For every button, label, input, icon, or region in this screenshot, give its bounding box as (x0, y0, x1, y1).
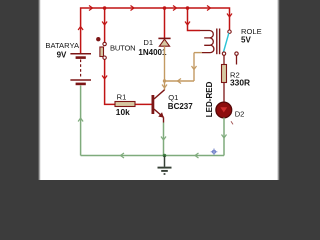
LED emission mark (231, 121, 233, 124)
current arrow rail right 1 (89, 6, 93, 11)
svg-text:1N4001: 1N4001 (138, 48, 167, 57)
wire tan horizontal to relay (165, 80, 195, 82)
wire button branch drop (104, 8, 106, 42)
node junction dot coil (186, 6, 190, 10)
current arrow rail right 3 (173, 6, 177, 11)
origin marker (blue) (211, 149, 218, 156)
resistor R2 body (222, 65, 227, 83)
LED D2 inner arrow (220, 107, 227, 112)
wire diode branch drop (164, 8, 166, 38)
svg-text:R1: R1 (117, 92, 127, 101)
current arrow rail right 4 (207, 6, 211, 11)
wire battery bottom green (80, 86, 82, 156)
ground symbol (158, 156, 172, 175)
wire button to R1 (105, 59, 116, 104)
wire R2 to LED (223, 83, 225, 103)
wire bottom ground rail (81, 155, 224, 157)
svg-text:LED-RED: LED-RED (205, 81, 214, 117)
white schematic canvas (40, 0, 277, 180)
LED D2 body (216, 102, 232, 118)
relay core bar 2 (219, 29, 221, 55)
wire tan relay riser (193, 53, 195, 81)
current arrow pole down (227, 14, 232, 18)
diode D1 triangle (159, 39, 169, 46)
svg-text:BC237: BC237 (168, 102, 193, 111)
svg-text:5V: 5V (241, 36, 251, 45)
svg-text:BATARYA: BATARYA (45, 41, 80, 50)
current arrow rail right 2 (131, 6, 135, 11)
button actuator (100, 47, 104, 57)
current arrow button down (102, 22, 107, 26)
wire relay coil branch (188, 8, 201, 31)
wire LED to rail green (223, 118, 225, 156)
wire top power rail (81, 8, 230, 53)
diode D1 cathode bar (158, 37, 170, 39)
current arrow green up battery (78, 118, 83, 122)
svg-text:9V: 9V (57, 50, 67, 59)
svg-text:D1: D1 (143, 38, 153, 47)
current arrow green down emitter (161, 137, 166, 141)
node green junction dot (163, 154, 167, 158)
current arrow tan down to collector (162, 85, 167, 89)
transistor Q1 emitter stub (163, 117, 165, 122)
transistor Q1 emitter diagonal (154, 109, 164, 117)
transistor Q1 base bar (151, 95, 154, 114)
wire contact to R2 (223, 55, 225, 64)
resistor R1 body (115, 102, 135, 107)
wire tan junction to collector (164, 81, 166, 90)
wire R1 to Q1 base (135, 103, 152, 105)
relay core bar 1 (216, 29, 218, 55)
current arrow green left 1 (121, 153, 125, 158)
node junction dot button (103, 6, 107, 10)
svg-text:330R: 330R (230, 78, 250, 88)
transistor Q1 collector diagonal (154, 90, 165, 99)
background dark bars (0, 0, 320, 180)
node junction dot diode (163, 6, 167, 10)
wire tan diode to junction (164, 46, 166, 81)
svg-text:D2: D2 (235, 109, 245, 118)
wire tan coil bottom stub (194, 52, 202, 54)
svg-text:10k: 10k (116, 107, 130, 117)
transistor Q1 emitter arrowhead (159, 113, 163, 117)
button cap dot (96, 37, 100, 41)
current arrow button-R1 down (102, 76, 107, 80)
relay NO contact (222, 52, 225, 55)
relay NC contact (235, 52, 238, 55)
button top terminal (103, 42, 106, 45)
current arrow tan left (178, 79, 182, 84)
wire emitter to rail green (163, 123, 165, 156)
current arrow green down LED (222, 135, 227, 139)
current arrow green left 2 (195, 153, 199, 158)
button bottom terminal (103, 56, 106, 59)
battery BAT1 plates (70, 54, 91, 84)
relay NC stub (236, 55, 238, 64)
current arrow coil down (185, 22, 190, 26)
svg-text:Q1: Q1 (168, 93, 178, 102)
current arrow tan down riser (192, 66, 197, 70)
current arrow battery up (78, 27, 83, 31)
svg-text:BUTON: BUTON (110, 43, 135, 52)
relay pole terminal (228, 30, 231, 33)
relay blade (cyan) (224, 33, 229, 52)
relay RL1 coil (200, 31, 214, 53)
node tan junction dot (163, 79, 166, 82)
